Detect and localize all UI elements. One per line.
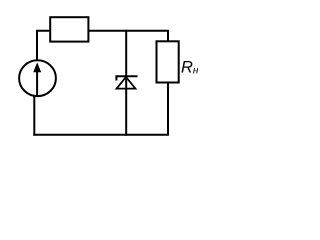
load resistor Rн [157, 41, 179, 82]
zener diode VD1 triangle [117, 77, 136, 89]
zener branch wire [125, 30, 127, 136]
wire: source top to resistor left [37, 31, 50, 60]
zener diode VD1 cathode bar [116, 76, 137, 80]
wire: load bottom down [167, 83, 169, 135]
bottom wire [33, 134, 169, 136]
current source arrow [33, 62, 41, 95]
svg-text:Rн: Rн [181, 59, 199, 77]
wire: resistor right to top-right corner and down to load [89, 31, 169, 42]
current source I1 [19, 60, 56, 96]
wire: source bottom down [33, 96, 35, 136]
resistor R1 [50, 17, 88, 41]
